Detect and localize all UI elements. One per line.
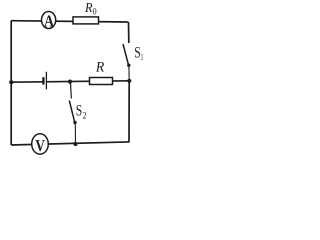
svg-text:V: V — [35, 136, 45, 155]
svg-text:S: S — [76, 102, 83, 119]
ammeter A (circle on top wire) — [42, 12, 56, 29]
switch S2 blade — [69, 101, 74, 122]
wire: left vertical — [10, 21, 12, 145]
svg-text:0: 0 — [93, 7, 97, 17]
wire: S2 stub from middle wire — [70, 82, 71, 99]
wire: right lower vertical — [128, 81, 130, 142]
node: right end of battery row — [127, 79, 131, 83]
wire: bottom horizontal — [11, 142, 129, 145]
svg-text:R: R — [95, 59, 104, 75]
resistor R (box on middle wire) — [90, 78, 113, 85]
wire: S2 lower stub to bottom wire — [74, 123, 76, 144]
wire: top horizontal (battery+ to R0) — [11, 21, 129, 22]
node: left end of battery row — [9, 80, 13, 84]
wire: S1 stub to middle wire — [128, 66, 130, 81]
node: S2 to bottom wire — [73, 142, 77, 146]
switch S2 pivot dot — [73, 121, 76, 124]
switch S1 blade — [123, 44, 128, 65]
svg-text:A: A — [44, 11, 55, 30]
battery cell (plates with white gap mask) — [44, 78, 46, 86]
wire: middle horizontal (battery row) — [11, 81, 129, 82]
svg-text:2: 2 — [83, 112, 87, 122]
switch S1 pivot dot — [127, 64, 130, 67]
resistor R0 (box on top wire) — [73, 17, 99, 24]
node: junction battery/S2 branch — [68, 80, 72, 84]
svg-text:1: 1 — [141, 53, 144, 63]
wire: right upper vertical into S1 — [128, 22, 130, 43]
svg-text:S: S — [134, 44, 141, 61]
voltmeter V (circle on bottom wire) — [32, 134, 49, 154]
